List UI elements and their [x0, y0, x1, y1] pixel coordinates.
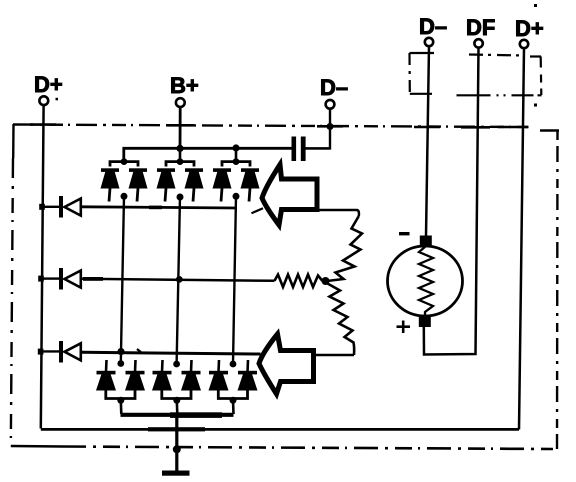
negative diode pair 2: [152, 360, 201, 414]
diode N2a: [153, 371, 172, 375]
terminal D- right circle: [425, 38, 433, 46]
wire rail thick segment: [148, 427, 205, 431]
node pair3 top: [233, 158, 240, 165]
wire bottom rail: [41, 428, 519, 431]
node D+ row2: [38, 276, 44, 282]
housing border top (dash-dot): [13, 125, 559, 131]
svg-text:D+: D+: [515, 16, 544, 41]
brush box D- (dashed): [410, 53, 435, 94]
rotor minus sign: [399, 232, 410, 235]
wire N3 lead right top: [246, 360, 249, 372]
diode P2a: [157, 168, 176, 201]
border crossing tick D- right: [414, 126, 440, 129]
rotor circle: [388, 246, 463, 316]
terminal D+ left circle: [39, 96, 48, 105]
exciter diode D3: [43, 341, 81, 363]
node N3 bottom: [230, 397, 237, 404]
speckle top right: [534, 4, 537, 7]
svg-text:D+: D+: [34, 72, 63, 97]
wire bus stub pair3: [235, 148, 238, 161]
wire D- mid drop: [305, 109, 330, 149]
wire phase column 1: [121, 196, 124, 363]
node ground border: [173, 445, 181, 453]
node phase2 top: [177, 194, 184, 201]
wire row3 flick: [137, 349, 143, 354]
node phase1 lower: [117, 360, 124, 367]
diode P2b: [185, 168, 204, 201]
node bus pair3: [232, 144, 239, 151]
wire N3 lead left top: [217, 360, 220, 372]
node N2 bottom: [173, 397, 180, 404]
diode N2b: [182, 371, 201, 375]
diode P1a: [101, 168, 120, 201]
brush box DF D+ (dashed): [457, 55, 542, 96]
wire row2: [82, 279, 275, 281]
node bus B+: [176, 145, 183, 152]
positive diode pair 3 bracket: [222, 162, 250, 167]
exciter diode D1: [44, 196, 81, 218]
positive diode pair 2 bracket: [166, 162, 194, 167]
wire arrow1 flick: [252, 208, 264, 213]
node D+ row3: [38, 349, 44, 355]
node phase2 lower: [173, 361, 180, 368]
node D- border: [327, 123, 334, 130]
wire D- right drop: [426, 46, 429, 236]
winding 3: [328, 284, 355, 356]
rotor field resistor zigzag: [419, 246, 433, 317]
rotor plus sign: [397, 321, 411, 334]
node row2 phase2: [176, 276, 183, 283]
node phase3 lower: [230, 361, 237, 368]
wire ground stem: [175, 414, 178, 471]
svg-text:B+: B+: [170, 73, 199, 98]
exciter diode D2: [43, 268, 81, 290]
wire N1 lead left top: [105, 360, 108, 372]
diode P3a: [213, 168, 232, 201]
border crossing tick D+ left: [30, 123, 56, 126]
node N1 bottom: [117, 397, 124, 404]
terminal D+ right circle: [520, 40, 528, 48]
diode N3a: [209, 371, 228, 375]
svg-text:DF: DF: [466, 15, 495, 40]
terminal DF circle: [474, 39, 482, 47]
housing border left (dash-dot): [11, 124, 14, 446]
wire N3 bottom bracket: [218, 391, 247, 399]
node phase1 top: [121, 193, 128, 200]
svg-text:D–: D–: [419, 14, 447, 39]
wire row1 thick piece: [149, 206, 162, 210]
diode P3b: [241, 168, 260, 201]
rotor field winding: [388, 236, 463, 328]
diode P1b: [129, 168, 148, 201]
node D+ row1: [39, 204, 45, 210]
stator arrow upper: [262, 165, 317, 226]
negative diode pair 3: [209, 360, 258, 414]
border crossing tick DF: [461, 126, 490, 129]
wire row1: [82, 207, 237, 208]
capacitor C1: [292, 137, 330, 162]
wire N2 bottom bracket: [162, 391, 191, 399]
wire D+ column: [41, 105, 44, 428]
wire row3: [82, 352, 261, 354]
node row3 phase1: [117, 348, 124, 355]
svg-text:D–: D–: [320, 75, 348, 100]
wire N3 drop to ground bus: [232, 400, 235, 414]
negative diode pair 1: [96, 360, 145, 414]
housing border right (dash-dot): [556, 131, 559, 449]
brush negative (top): [420, 236, 432, 247]
speckle right box: [534, 104, 537, 107]
wire phase column 2: [177, 196, 180, 364]
wire N2 lead right top: [190, 360, 193, 372]
winding 2: [275, 275, 323, 288]
diode N3b: [238, 371, 257, 375]
stator arrow lower: [259, 334, 314, 394]
node phase3 top: [233, 193, 240, 200]
winding 1: [327, 216, 362, 281]
wire B+ drop: [179, 107, 182, 149]
wire winding3 lead: [315, 354, 355, 357]
wire N1 drop to ground bus: [120, 400, 123, 414]
border crossing tick D+ right: [498, 126, 529, 129]
node pair1 top: [121, 158, 128, 165]
wire bus stub pair2: [179, 148, 182, 161]
housing border bottom (dash-dot): [11, 446, 553, 449]
wire N1 lead right top: [134, 360, 137, 372]
terminal D- mid circle: [326, 100, 335, 109]
wire N2 lead left top: [161, 360, 164, 372]
border crossing tick D- mid: [317, 125, 343, 128]
speckle near D+: [56, 98, 59, 101]
diode N1a: [97, 371, 116, 375]
diode N1b: [126, 371, 145, 375]
node pair2 top: [177, 158, 184, 165]
wire N1 bottom bracket: [106, 391, 135, 399]
wire ground bus: [121, 413, 234, 417]
terminal B+ circle: [176, 98, 185, 107]
wire D+ right drop: [519, 48, 524, 429]
wire N2 drop to ground bus: [176, 400, 179, 414]
brush positive (bottom): [419, 317, 431, 328]
wire DF drop: [424, 48, 479, 355]
positive diode pair 1 bracket: [110, 162, 138, 167]
ground: [162, 471, 190, 476]
node star point: [322, 277, 330, 285]
wire phase column 3: [233, 196, 236, 364]
wire B+ bus: [124, 148, 292, 161]
wire winding1 lead: [318, 210, 359, 216]
border crossing tick B+: [167, 124, 194, 127]
